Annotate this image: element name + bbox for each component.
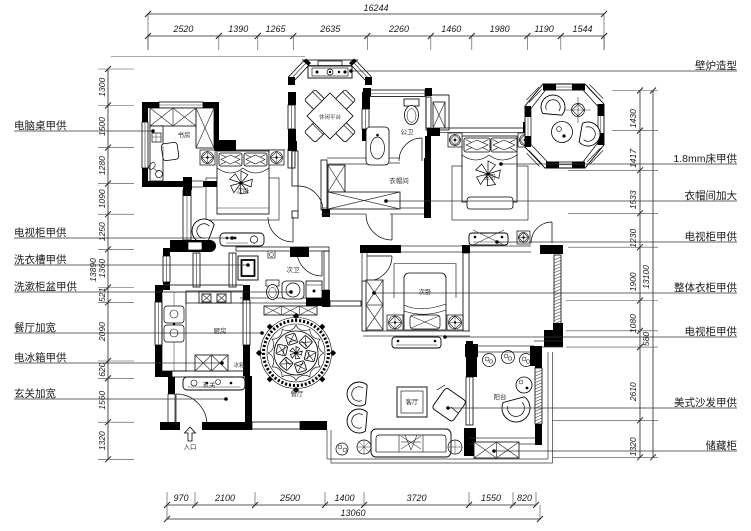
leader label right 美式沙发甲供: [448, 407, 737, 409]
living coffee table: [397, 387, 427, 417]
dimension chain right: [639, 91, 641, 458]
svg-text:1900: 1900: [628, 272, 638, 291]
east window wall: [554, 255, 561, 325]
svg-text:521: 521: [97, 288, 107, 302]
octagon sunroom walls: [525, 84, 604, 168]
svg-text:1090: 1090: [97, 189, 107, 208]
svg-text:衣帽间: 衣帽间: [389, 176, 409, 185]
leader label left 电冰箱甲供: [14, 362, 222, 364]
svg-text:3720: 3720: [406, 493, 426, 503]
leader label left 洗衣槽甲供: [14, 264, 248, 266]
svg-text:电视柜甲供: 电视柜甲供: [14, 226, 67, 239]
family area flower: [517, 231, 530, 244]
svg-text:1390: 1390: [228, 24, 248, 34]
leader label right 衣帽间加大: [386, 200, 737, 202]
bay table: [304, 89, 325, 110]
bedroom3 door: [367, 256, 392, 281]
master door: [531, 222, 552, 243]
svg-text:2635: 2635: [319, 24, 341, 34]
svg-text:1430: 1430: [628, 109, 638, 128]
svg-text:620: 620: [97, 362, 107, 376]
bedroom3 west wall: [362, 281, 367, 331]
svg-text:13060: 13060: [340, 508, 365, 518]
boundary step lines: [326, 430, 328, 459]
master tv deco cross: [473, 230, 504, 245]
bedroom3 bed: [404, 273, 446, 330]
leader label left 餐厅加宽: [14, 332, 262, 334]
study wardrobe: [150, 108, 196, 126]
svg-text:1280: 1280: [97, 156, 107, 175]
corridor pier: [322, 209, 330, 217]
corridor door upper: [297, 186, 299, 211]
bay fireplace: [318, 61, 342, 66]
balcony table: [516, 377, 532, 393]
bedroom3 south wall: [363, 330, 470, 332]
laundry west wall window: [163, 248, 170, 256]
svg-text:美式沙发甲供: 美式沙发甲供: [674, 396, 737, 409]
svg-text:次卧: 次卧: [419, 287, 433, 296]
master bed bench: [467, 197, 513, 209]
entry shoe cabinet: [183, 377, 245, 390]
svg-text:1560: 1560: [97, 391, 107, 410]
svg-text:入口: 入口: [184, 443, 197, 451]
svg-text:820: 820: [517, 493, 532, 503]
living deco flowers: [357, 440, 371, 454]
svg-text:电视柜甲供: 电视柜甲供: [685, 325, 738, 338]
master bedside dressers: [448, 133, 462, 147]
svg-text:1460: 1460: [441, 24, 461, 34]
octagon edge window lines: [556, 86, 572, 88]
svg-text:储藏柜: 储藏柜: [706, 439, 738, 452]
svg-text:玄关: 玄关: [203, 380, 217, 389]
svg-text:1320: 1320: [628, 437, 638, 456]
svg-text:主卧: 主卧: [484, 172, 498, 181]
svg-text:次卫: 次卫: [287, 265, 301, 274]
bath1 niche cabinet: [426, 95, 449, 130]
master tv cabinet: [469, 233, 508, 245]
svg-text:电脑桌甲供: 电脑桌甲供: [14, 119, 67, 132]
svg-text:1550: 1550: [481, 493, 501, 503]
svg-text:1300: 1300: [97, 78, 107, 97]
svg-text:970: 970: [173, 493, 188, 503]
kitchen counter: [162, 292, 186, 371]
leader label right 储藏柜: [494, 450, 737, 452]
svg-text:13100: 13100: [641, 265, 651, 289]
living east wall: [466, 341, 473, 377]
svg-text:休闲平台: 休闲平台: [319, 113, 342, 121]
svg-text:壁炉造型: 壁炉造型: [695, 59, 737, 72]
octagon compass symbol: [572, 104, 585, 117]
bedroom2 armchair: [192, 219, 214, 243]
dimension chain bottom segments: [167, 504, 536, 506]
svg-text:1360: 1360: [97, 259, 107, 278]
svg-text:2260: 2260: [388, 24, 409, 34]
entrance arrow: [185, 427, 196, 441]
balcony fan chair: [502, 397, 530, 422]
master north wall: [440, 127, 523, 129]
master bed: [462, 136, 517, 202]
svg-text:衣帽间加大: 衣帽间加大: [685, 189, 738, 202]
bedroom2 rug: [206, 178, 279, 220]
svg-text:1230: 1230: [628, 229, 638, 248]
svg-text:1417: 1417: [628, 149, 638, 168]
bath2 washer: [306, 281, 322, 298]
bath1 sink: [366, 127, 389, 165]
svg-text:餐厅加宽: 餐厅加宽: [14, 321, 56, 334]
bath1 toilet: [404, 99, 419, 106]
living tv cabinet: [392, 337, 441, 348]
octagon chairs and table: [541, 95, 565, 115]
svg-text:13890: 13890: [88, 258, 98, 282]
svg-text:整体衣柜甲供: 整体衣柜甲供: [674, 281, 737, 294]
svg-text:次卧: 次卧: [237, 186, 251, 195]
leader label left 电脑桌甲供: [14, 130, 153, 132]
bath2 door: [297, 251, 322, 276]
bedroom3 east wall: [463, 253, 469, 331]
living plant: [336, 443, 348, 455]
dining round table: [264, 321, 329, 386]
closet wardrobes: [328, 165, 345, 192]
bay east wall: [362, 92, 370, 109]
svg-text:客厅: 客厅: [406, 397, 420, 406]
svg-text:1320: 1320: [97, 431, 107, 450]
bath1 door: [399, 138, 422, 161]
svg-text:冰箱: 冰箱: [233, 361, 245, 369]
svg-text:2090: 2090: [97, 322, 107, 342]
leader label left 洗漱柜盆甲供: [14, 291, 291, 293]
dimension chain top segments: [148, 35, 604, 37]
leader label right 电视柜甲供: [497, 241, 737, 243]
svg-text:1544: 1544: [572, 24, 592, 34]
dimension chain left: [107, 69, 109, 459]
svg-text:2610: 2610: [628, 382, 638, 402]
svg-text:洗漱柜盆甲供: 洗漱柜盆甲供: [14, 280, 77, 293]
kitchen top counter: [186, 291, 243, 303]
bedroom2 door: [292, 217, 294, 242]
study floor lamp: [156, 171, 163, 178]
study room walls: [142, 102, 159, 108]
dimension chain bottom total 13060: [167, 518, 540, 520]
kitchen stove: [199, 292, 231, 303]
svg-text:厨房: 厨房: [214, 326, 227, 335]
svg-text:电冰箱甲供: 电冰箱甲供: [14, 351, 67, 364]
bay west wall: [288, 92, 296, 105]
corridor west wall: [292, 151, 298, 186]
bath2 wall fixture: [268, 251, 275, 258]
octagon chamfer windows: [587, 85, 603, 101]
passage wall: [360, 245, 368, 253]
svg-text:餐厅: 餐厅: [291, 389, 305, 398]
svg-text:书房: 书房: [178, 130, 191, 139]
svg-text:洗衣槽甲供: 洗衣槽甲供: [14, 253, 67, 266]
svg-text:1190: 1190: [534, 24, 553, 34]
svg-text:1265: 1265: [266, 24, 287, 34]
svg-text:1500: 1500: [97, 117, 107, 136]
kitchen fridge: [195, 355, 228, 371]
living sofa: [371, 429, 451, 457]
bath1 walls: [370, 90, 425, 97]
bedroom2 bedside dressers: [200, 150, 215, 165]
svg-text:玄关加宽: 玄关加宽: [14, 387, 56, 400]
leader label right 电视柜甲供: [445, 336, 737, 338]
bedroom3 rug: [394, 264, 456, 299]
bedroom2 north wall: [214, 140, 236, 151]
svg-text:1400: 1400: [334, 493, 354, 503]
svg-text:16244: 16244: [363, 3, 388, 13]
bath2 pedestal sink: [282, 281, 304, 299]
leader label right 整体衣柜甲供: [374, 292, 737, 294]
octagon corner blocks: [543, 84, 556, 91]
bath2 walls: [236, 247, 329, 251]
bedroom2 west wall window: [183, 177, 192, 190]
bay top wall: [302, 59, 358, 61]
leader label right 1.8mm床甲供: [501, 163, 737, 165]
dimension chain top total 16244: [148, 13, 604, 15]
study chair: [161, 142, 179, 161]
entry walls: [168, 377, 175, 394]
svg-text:1533: 1533: [628, 190, 638, 209]
bay chamfer window right: [352, 61, 372, 82]
living rotated armchair: [432, 387, 467, 422]
bedroom3 bedside tables: [387, 315, 403, 330]
closet door: [366, 214, 392, 240]
svg-text:电视柜甲供: 电视柜甲供: [685, 230, 738, 243]
leader label left 电视柜甲供: [14, 237, 232, 239]
top reference line: [111, 56, 305, 58]
bedroom3 built-in wardrobe: [366, 280, 383, 330]
svg-text:2500: 2500: [279, 493, 300, 503]
living fan chairs: [347, 382, 367, 406]
dining south wall: [252, 422, 300, 429]
bedroom3 north wall: [368, 245, 401, 253]
svg-text:2520: 2520: [172, 24, 193, 34]
bedroom2 tv cabinet: [220, 233, 264, 246]
kitchen sink: [164, 306, 184, 323]
svg-text:580: 580: [641, 332, 651, 346]
balcony plants: [483, 354, 496, 367]
storage cabinet: [474, 442, 519, 458]
dining sideboard: [264, 306, 317, 315]
svg-text:阳台: 阳台: [494, 392, 507, 401]
master south wall: [401, 245, 531, 247]
study desk and computer: [150, 126, 163, 181]
bay chamfer window left: [289, 61, 309, 82]
bath2 toilet: [266, 280, 279, 286]
entry door: [176, 394, 207, 425]
laundry trough cabinet: [238, 256, 258, 280]
laundry counter black: [170, 240, 216, 252]
svg-text:公卫: 公卫: [401, 128, 415, 136]
svg-text:2100: 2100: [214, 493, 235, 503]
closet walls: [327, 157, 367, 159]
kitchen walls: [155, 285, 163, 292]
master rug: [452, 166, 528, 220]
leader label left 玄关加宽: [14, 398, 226, 400]
laundry sliding strips: [193, 253, 200, 287]
bedroom2 bed: [217, 151, 269, 214]
leader label right 壁炉造型: [351, 70, 737, 72]
svg-text:1080: 1080: [628, 314, 638, 333]
svg-text:1.8mm床甲供: 1.8mm床甲供: [673, 152, 737, 165]
svg-text:1980: 1980: [490, 24, 510, 34]
balcony walls: [476, 345, 534, 347]
